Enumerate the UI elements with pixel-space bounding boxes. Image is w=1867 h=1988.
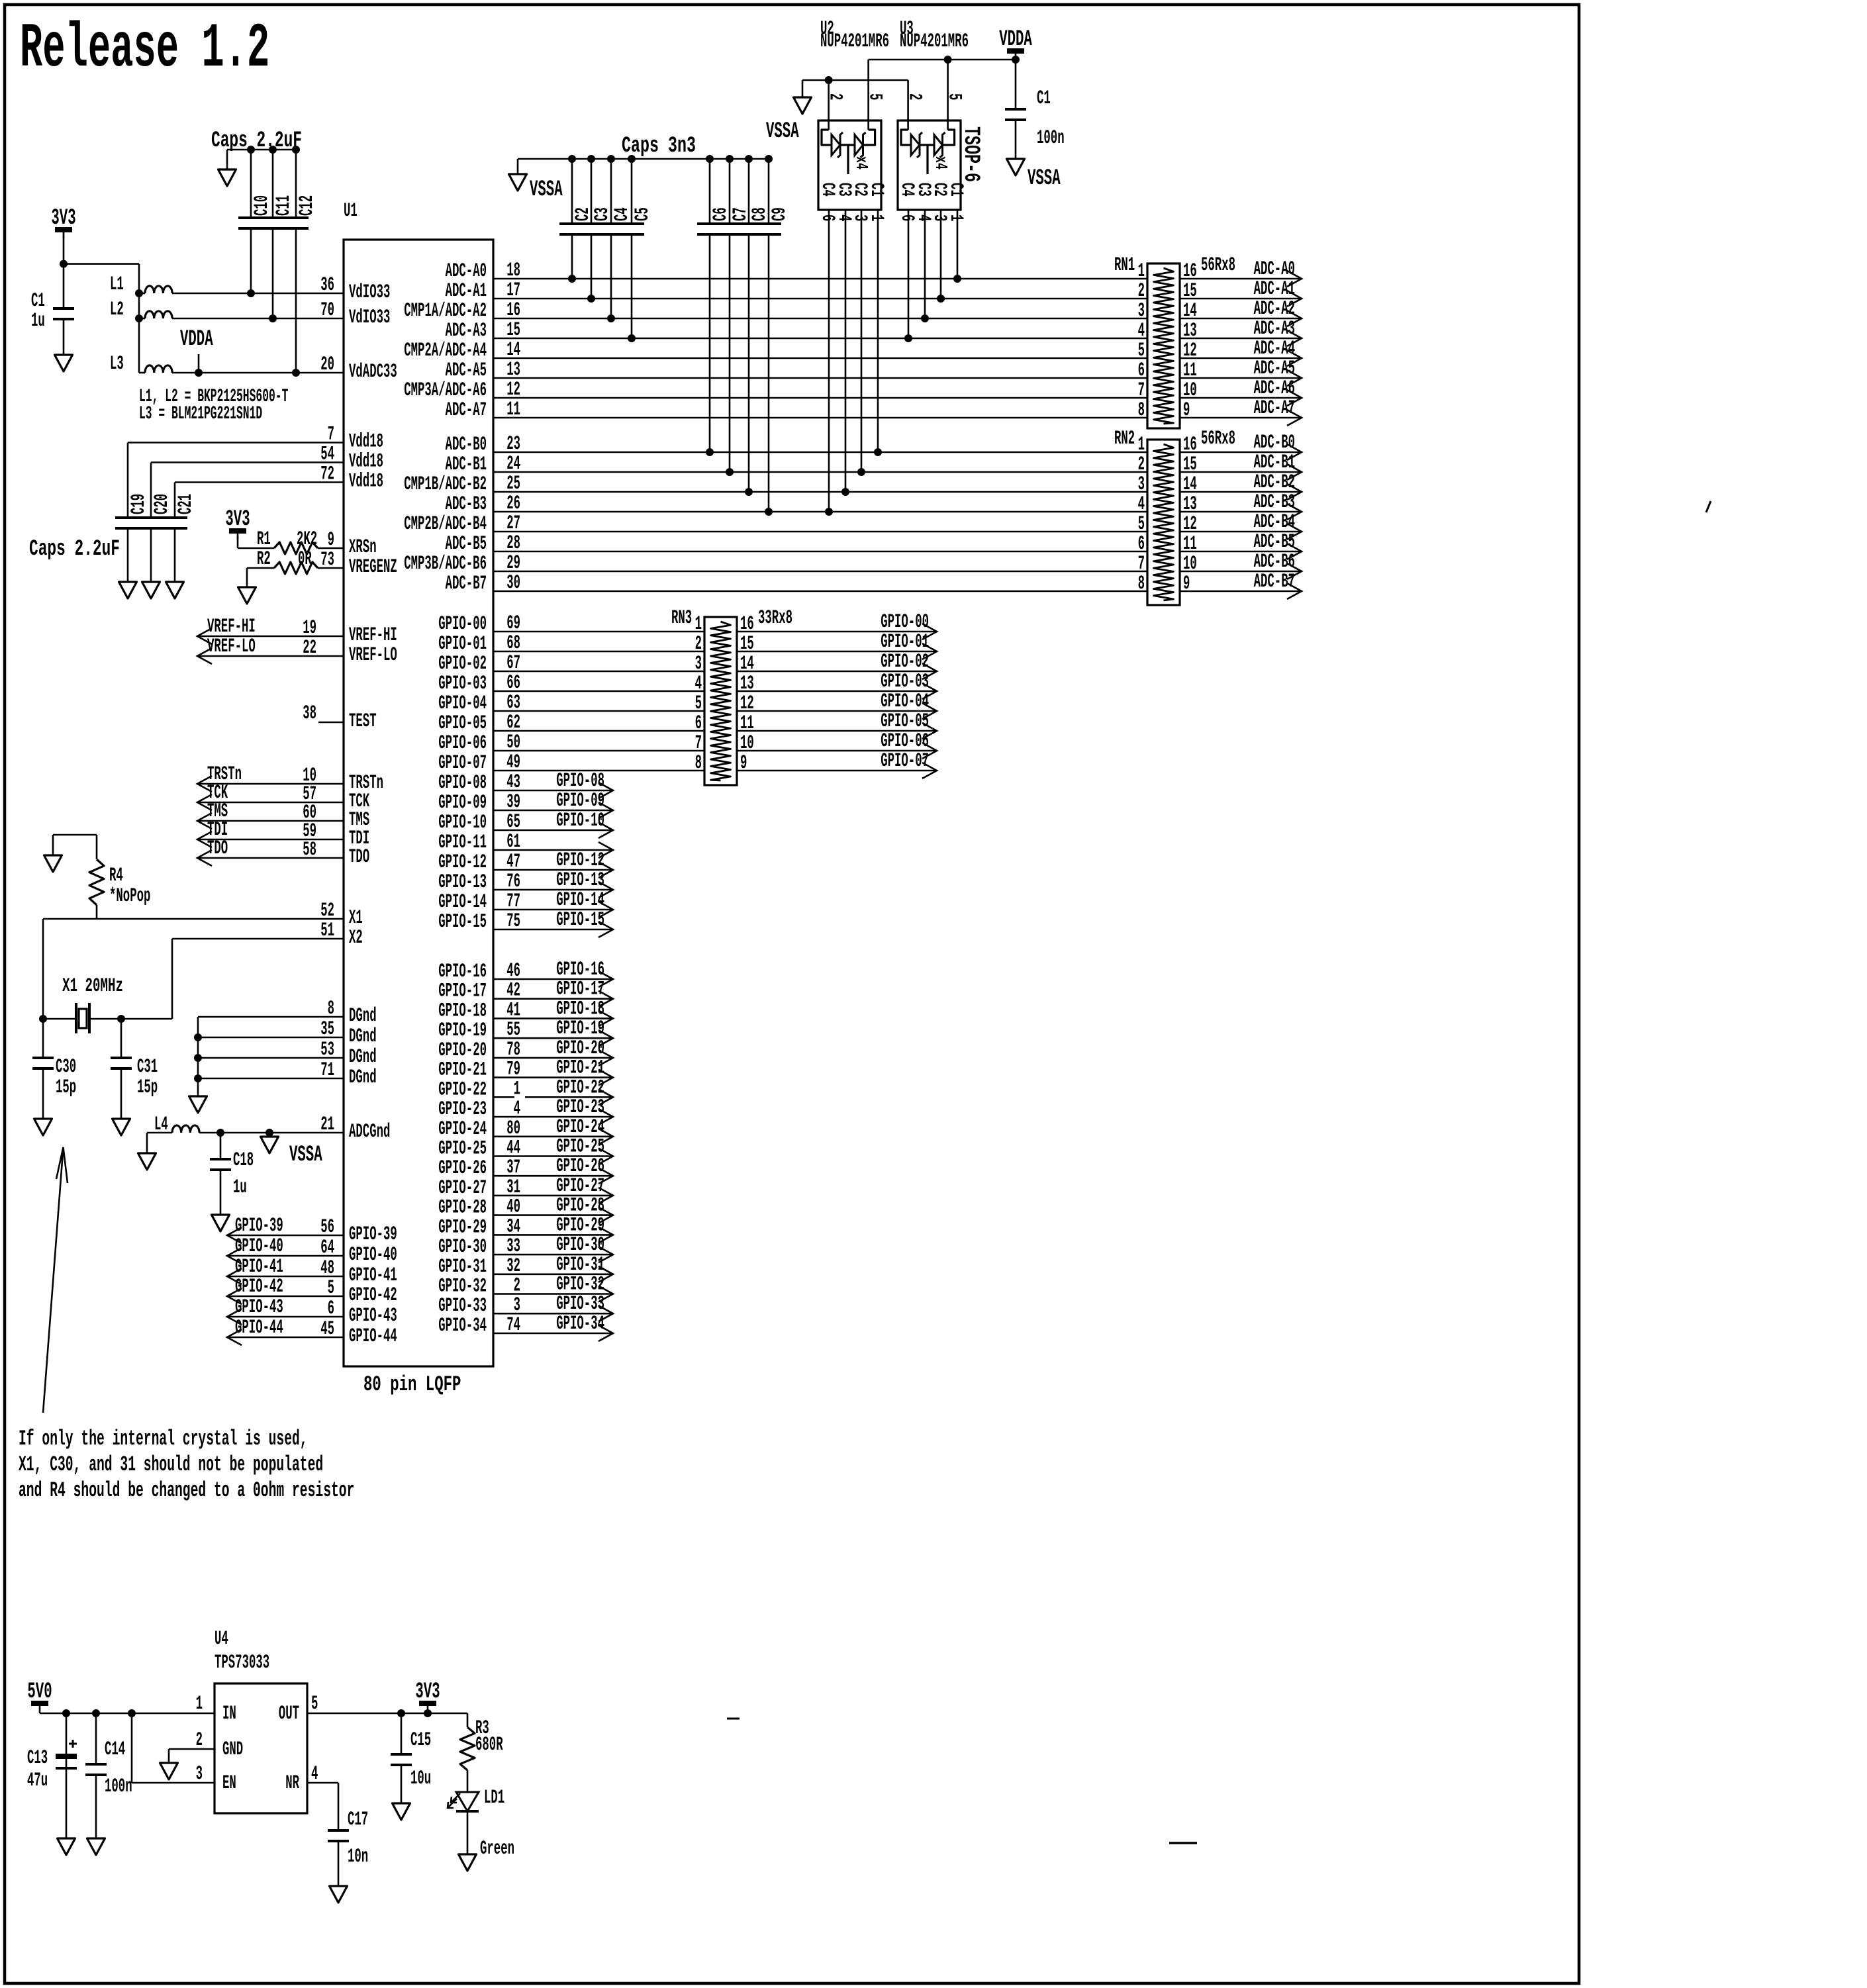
svg-text:VREGENZ: VREGENZ bbox=[349, 556, 397, 579]
wire GPIO-09 arrow bbox=[493, 810, 613, 812]
wire GPIO-05 to RN3 bbox=[493, 730, 704, 732]
wire GPIO-32 arrow bbox=[493, 1293, 613, 1295]
svg-text:7: 7 bbox=[695, 732, 702, 755]
svg-text:48: 48 bbox=[320, 1257, 334, 1280]
svg-text:15p: 15p bbox=[137, 1076, 158, 1099]
label C4 U3 bbox=[896, 183, 917, 197]
svg-text:Vdd18: Vdd18 bbox=[349, 451, 383, 473]
svg-text:39: 39 bbox=[506, 791, 520, 814]
net label TDI bbox=[207, 819, 228, 841]
net label GPIO-08 bbox=[556, 770, 604, 792]
wire GPIO-07 output arrow bbox=[737, 770, 937, 772]
svg-text:43: 43 bbox=[506, 771, 520, 794]
wire X2 drop bbox=[171, 939, 173, 1019]
svg-text:100n: 100n bbox=[105, 1775, 132, 1798]
wire ADC-A6 output arrow bbox=[1180, 397, 1302, 399]
wire R4 top hook bbox=[53, 834, 97, 836]
pin 4 RN3 bbox=[695, 673, 702, 695]
svg-text:R4: R4 bbox=[109, 865, 123, 887]
svg-text:GPIO-08: GPIO-08 bbox=[438, 772, 487, 794]
ground C30 bbox=[34, 1119, 52, 1135]
pin 7 RN3 bbox=[695, 732, 702, 755]
capacitor C4 3n3 bbox=[598, 224, 624, 234]
stray mark dash 1 bbox=[727, 1718, 740, 1720]
pin 63 GPIO-04 bbox=[506, 692, 520, 714]
note crystal usage line 1 bbox=[19, 1427, 308, 1451]
resistor R4 NoPop bbox=[96, 835, 98, 859]
svg-text:1: 1 bbox=[1138, 434, 1145, 456]
svg-text:56: 56 bbox=[320, 1216, 334, 1239]
wire U2 pin 2 riser bbox=[828, 80, 830, 130]
pin 16 CMP1A/ADC-A2 bbox=[506, 299, 520, 322]
ground VSSA ADCGnd bbox=[261, 1137, 279, 1153]
svg-text:GPIO-14: GPIO-14 bbox=[556, 889, 604, 912]
svg-text:GPIO-39: GPIO-39 bbox=[235, 1215, 283, 1237]
label C1 U2 bbox=[866, 183, 886, 197]
label C18 bbox=[233, 1149, 254, 1172]
wire GPIO-02 to RN3 bbox=[493, 671, 704, 673]
label 0R bbox=[298, 548, 312, 571]
wire C12 bottom bbox=[295, 228, 297, 373]
svg-text:5: 5 bbox=[1138, 513, 1145, 536]
ground C14 bbox=[87, 1838, 105, 1855]
svg-text:2: 2 bbox=[1138, 280, 1145, 303]
label 100n bbox=[1037, 127, 1065, 150]
ground L4 bbox=[138, 1153, 156, 1170]
wire VDDA to C1 bbox=[1015, 60, 1017, 109]
svg-text:5: 5 bbox=[311, 1693, 318, 1715]
junction C12 bbox=[292, 369, 300, 377]
ground LD1 bbox=[459, 1854, 477, 1871]
wire ADC-A3 bus bbox=[493, 338, 1147, 340]
capacitor C31 bbox=[111, 1058, 132, 1068]
wire EN strap bbox=[131, 1713, 133, 1783]
svg-text:Vdd18: Vdd18 bbox=[349, 471, 383, 493]
svg-text:DGnd: DGnd bbox=[349, 1046, 377, 1068]
svg-text:2: 2 bbox=[825, 93, 845, 100]
capacitor C1 100n bbox=[1005, 109, 1026, 120]
svg-text:ADC-B4: ADC-B4 bbox=[1254, 511, 1295, 534]
svg-text:6: 6 bbox=[1138, 359, 1145, 382]
svg-text:ADC-A5: ADC-A5 bbox=[1254, 357, 1295, 380]
note inductor part numbers bbox=[139, 387, 288, 407]
svg-text:65: 65 bbox=[506, 811, 520, 833]
pin 28 ADC-B5 bbox=[506, 532, 520, 555]
wire C11 bottom bbox=[272, 228, 274, 318]
inductor L1 bbox=[139, 293, 145, 295]
capacitor C15 bbox=[391, 1754, 412, 1765]
wire GPIO-28 arrow bbox=[493, 1214, 613, 1216]
label C1 100n bbox=[1037, 87, 1051, 110]
svg-text:DGnd: DGnd bbox=[349, 1005, 377, 1027]
label C3 U2 bbox=[834, 183, 854, 197]
label 33Rx8 bbox=[758, 607, 792, 630]
net label GPIO-26 bbox=[556, 1155, 604, 1178]
wire 5V0 to U4 IN bbox=[39, 1712, 41, 1713]
wire C1 to ground bbox=[63, 319, 65, 355]
wire ADC-B1 bus bbox=[493, 471, 1147, 473]
wire GPIO-44 arrow bbox=[227, 1337, 344, 1339]
svg-text:GPIO-01: GPIO-01 bbox=[881, 631, 929, 653]
wire GPIO-26 arrow bbox=[493, 1175, 613, 1177]
svg-text:VSSA: VSSA bbox=[289, 1143, 322, 1168]
svg-text:GPIO-44: GPIO-44 bbox=[235, 1317, 283, 1339]
wire GPIO-17 arrow bbox=[493, 998, 613, 1000]
ground C13 bbox=[58, 1838, 75, 1855]
wire 3V3 to VDDA bus bbox=[63, 235, 65, 308]
label C5 bbox=[632, 207, 654, 221]
wire GPIO-00 to RN3 bbox=[493, 631, 704, 633]
svg-text:C12: C12 bbox=[296, 195, 318, 216]
wire VREF-LO arrow bbox=[197, 655, 344, 657]
svg-text:71: 71 bbox=[320, 1059, 334, 1082]
svg-text:RN3: RN3 bbox=[671, 607, 692, 630]
ground cap bank C10-C12 bbox=[218, 169, 236, 186]
wire caps 3n3 rail bbox=[518, 158, 769, 160]
wire ADC-B6 bus bbox=[493, 571, 1147, 573]
wire U3 pin 5 riser bbox=[947, 60, 949, 130]
label Caps 2.2uF (left) bbox=[29, 537, 120, 562]
svg-text:C13: C13 bbox=[27, 1747, 48, 1770]
pin 41 GPIO-18 bbox=[506, 999, 520, 1021]
svg-text:ADC-A6: ADC-A6 bbox=[1254, 377, 1295, 400]
junction EN bbox=[128, 1709, 136, 1717]
wire GPIO-30 arrow bbox=[493, 1254, 613, 1256]
svg-text:8: 8 bbox=[1138, 573, 1145, 595]
net label ADC-B4 bbox=[1254, 511, 1295, 534]
pin 42 GPIO-17 bbox=[506, 980, 520, 1002]
net label GPIO-16 bbox=[556, 959, 604, 981]
svg-text:ADC-A2: ADC-A2 bbox=[1254, 298, 1295, 320]
pin 22 VREF-LO bbox=[303, 637, 316, 659]
pin 27 CMP2B/ADC-B4 bbox=[506, 512, 520, 535]
wire Vdd18 pin 7 bbox=[128, 442, 344, 444]
label R3 bbox=[475, 1717, 489, 1740]
net label GPIO-31 bbox=[556, 1254, 604, 1276]
svg-text:C1: C1 bbox=[31, 290, 45, 312]
pin 69 GPIO-00 bbox=[506, 612, 520, 635]
pin 55 GPIO-19 bbox=[506, 1019, 520, 1041]
label C30 bbox=[56, 1056, 76, 1078]
svg-text:OUT: OUT bbox=[279, 1703, 299, 1725]
svg-text:and R4 should be changed to a: and R4 should be changed to a 0ohm resis… bbox=[19, 1478, 354, 1503]
junction U2 pin 3 bbox=[857, 468, 865, 476]
label C20 bbox=[151, 494, 173, 514]
pin 39 GPIO-09 bbox=[506, 791, 520, 814]
pin 10 RN1 bbox=[1183, 379, 1197, 402]
svg-text:VdIO33: VdIO33 bbox=[349, 281, 390, 304]
svg-text:ADC-B7: ADC-B7 bbox=[446, 573, 487, 595]
pin 13 RN3 bbox=[740, 673, 754, 695]
svg-text:24: 24 bbox=[506, 453, 520, 475]
junction L2 bus bbox=[135, 314, 143, 322]
svg-text:26: 26 bbox=[506, 493, 520, 515]
svg-text:ADC-B3: ADC-B3 bbox=[1254, 491, 1295, 514]
ground R4 bbox=[44, 855, 62, 872]
wire R1 to pin 9 XRSn bbox=[318, 547, 344, 549]
wire C11 top bbox=[272, 150, 274, 218]
pin 14 RN2 bbox=[1183, 473, 1197, 496]
svg-text:C15: C15 bbox=[410, 1729, 431, 1752]
net VSSA at ADCGnd bbox=[269, 1133, 271, 1137]
ground C19 bbox=[119, 582, 137, 598]
pin 4 RN1 bbox=[1138, 320, 1145, 342]
svg-text:17: 17 bbox=[506, 279, 520, 302]
pin 6 GPIO-43 bbox=[328, 1298, 334, 1320]
ground U4 bbox=[160, 1763, 178, 1779]
wire ADC-A4 bus bbox=[493, 357, 1147, 359]
svg-text:VSSA: VSSA bbox=[766, 119, 799, 144]
svg-text:ADC-B7: ADC-B7 bbox=[1254, 571, 1295, 593]
net label GPIO-07 bbox=[881, 750, 929, 773]
pin 5 RN3 bbox=[695, 692, 702, 715]
svg-text:1: 1 bbox=[196, 1693, 203, 1715]
svg-text:23: 23 bbox=[506, 433, 520, 455]
junction C14 bbox=[92, 1709, 100, 1717]
wire U2 pin 5 riser bbox=[867, 60, 869, 130]
svg-text:GPIO-41: GPIO-41 bbox=[235, 1256, 283, 1278]
wire ADC-A6 bus bbox=[493, 397, 1147, 399]
net label GPIO-03 bbox=[881, 671, 929, 693]
svg-text:GPIO-42: GPIO-42 bbox=[235, 1276, 283, 1298]
label L1 bbox=[110, 273, 124, 296]
svg-text:X1 20MHz: X1 20MHz bbox=[62, 975, 123, 998]
svg-text:GPIO-01: GPIO-01 bbox=[438, 633, 487, 655]
svg-text:IN: IN bbox=[222, 1703, 236, 1725]
svg-text:ADC-A0: ADC-A0 bbox=[1254, 258, 1295, 281]
svg-text:R2: R2 bbox=[257, 548, 271, 571]
svg-text:GPIO-39: GPIO-39 bbox=[349, 1223, 397, 1246]
svg-text:R1: R1 bbox=[257, 528, 271, 551]
svg-text:DGnd: DGnd bbox=[349, 1025, 377, 1048]
capacitor C31 15p bbox=[120, 1019, 122, 1058]
wire GPIO-19 arrow bbox=[493, 1037, 613, 1039]
wire NR to C17 bbox=[307, 1782, 338, 1784]
label U3 bbox=[900, 18, 914, 40]
pin 15 RN2 bbox=[1183, 453, 1197, 476]
wire DGnd pin 35 bbox=[198, 1037, 344, 1039]
svg-text:11: 11 bbox=[506, 399, 520, 421]
svg-text:69: 69 bbox=[506, 612, 520, 635]
svg-text:VREF-LO: VREF-LO bbox=[349, 644, 397, 667]
svg-text:Caps 2.2uF: Caps 2.2uF bbox=[29, 537, 120, 562]
wire VSSA rail (U2/U3 pin2) bbox=[802, 79, 908, 81]
pin 6 U3 bbox=[896, 214, 917, 221]
wire C4 lower bbox=[610, 234, 612, 318]
wire ADC-A0 bus bbox=[493, 278, 1147, 280]
pin 54 Vdd18 bbox=[320, 444, 334, 466]
net label GPIO-04 bbox=[881, 690, 929, 713]
label C11 bbox=[273, 195, 295, 216]
wire C3 lower bbox=[591, 234, 593, 299]
net label ADC-B6 bbox=[1254, 551, 1295, 573]
pin 47 GPIO-12 bbox=[506, 851, 520, 873]
label 10u bbox=[410, 1768, 431, 1790]
net label GPIO-44 bbox=[235, 1317, 283, 1339]
diode U2 D1 bbox=[832, 132, 843, 158]
pin 62 GPIO-05 bbox=[506, 712, 520, 734]
pin 64 GPIO-40 bbox=[320, 1237, 334, 1259]
net label ADC-A0 bbox=[1254, 258, 1295, 281]
net label TCK bbox=[207, 782, 228, 804]
capacitor C5 3n3 bbox=[619, 224, 644, 234]
label C14 bbox=[105, 1738, 125, 1761]
svg-text:CMP3A/ADC-A6: CMP3A/ADC-A6 bbox=[404, 379, 487, 402]
svg-text:GPIO-03: GPIO-03 bbox=[438, 673, 487, 695]
svg-text:VDDA: VDDA bbox=[180, 327, 213, 352]
wire ADC-B5 output arrow bbox=[1180, 551, 1302, 553]
label U1 bbox=[344, 200, 358, 222]
wire TCK arrow bbox=[197, 802, 344, 804]
svg-text:x4: x4 bbox=[931, 156, 951, 169]
wire ADC-A3 output arrow bbox=[1180, 338, 1302, 340]
wire ADC-A1 output arrow bbox=[1180, 298, 1302, 300]
svg-text:2: 2 bbox=[1138, 453, 1145, 476]
label C1 bbox=[31, 290, 45, 312]
label RN2 bbox=[1114, 428, 1135, 450]
junction C15 bbox=[397, 1709, 405, 1717]
svg-text:5: 5 bbox=[695, 692, 702, 715]
wire LED to ground bbox=[467, 1811, 469, 1854]
pin 72 Vdd18 bbox=[320, 463, 334, 486]
svg-text:ADC-A7: ADC-A7 bbox=[1254, 397, 1295, 420]
pin 19 VREF-HI bbox=[303, 617, 316, 639]
junction U3 pin 1 bbox=[953, 275, 961, 283]
svg-text:GPIO-04: GPIO-04 bbox=[438, 692, 487, 715]
svg-text:35: 35 bbox=[320, 1018, 334, 1041]
net label ADC-B2 bbox=[1254, 471, 1295, 494]
wire GPIO-13 arrow bbox=[493, 889, 613, 891]
svg-text:GPIO-07: GPIO-07 bbox=[881, 750, 929, 773]
svg-text:1: 1 bbox=[866, 214, 886, 221]
svg-text:GPIO-10: GPIO-10 bbox=[556, 810, 604, 832]
wire ADC-B2 output arrow bbox=[1180, 491, 1302, 493]
wire cap bank rail bbox=[227, 149, 296, 151]
label x4 U3 bbox=[931, 156, 951, 169]
junction crystal left bbox=[39, 1015, 47, 1023]
pin 12 RN1 bbox=[1183, 340, 1197, 362]
wire GPIO-10 arrow bbox=[493, 829, 613, 831]
stray mark apostrophe bbox=[1706, 501, 1711, 512]
svg-text:RN1: RN1 bbox=[1114, 254, 1135, 277]
label C21 bbox=[175, 494, 197, 514]
net label GPIO-18 bbox=[556, 998, 604, 1020]
svg-text:ADC-A1: ADC-A1 bbox=[446, 280, 487, 303]
pin 8 RN2 bbox=[1138, 573, 1145, 595]
wire ADC-B5 bus bbox=[493, 551, 1147, 553]
svg-text:GPIO-13: GPIO-13 bbox=[438, 871, 487, 894]
pin 2 RN2 bbox=[1138, 453, 1145, 476]
wire L3 to pin 20 bbox=[172, 372, 344, 374]
pin 58 TDO bbox=[303, 839, 316, 861]
ground C15 bbox=[393, 1803, 410, 1820]
svg-text:ADC-B5: ADC-B5 bbox=[446, 533, 487, 555]
junction C10 bbox=[247, 289, 255, 297]
svg-text:VREF-LO: VREF-LO bbox=[207, 636, 256, 658]
label x4 U2 bbox=[851, 156, 871, 169]
svg-text:1u: 1u bbox=[233, 1176, 247, 1199]
ground C18 bbox=[212, 1215, 230, 1231]
svg-text:ADC-A7: ADC-A7 bbox=[446, 399, 487, 422]
LED LD1 bbox=[448, 1792, 479, 1811]
pin 52 X1 bbox=[320, 900, 334, 922]
ground C17 bbox=[330, 1886, 348, 1903]
junction VSSA bbox=[265, 1129, 273, 1137]
svg-text:80 pin LQFP: 80 pin LQFP bbox=[363, 1372, 461, 1397]
pin 8 RN3 bbox=[695, 752, 702, 775]
wire C9 upper bbox=[768, 159, 770, 224]
pin 3 RN3 bbox=[695, 653, 702, 675]
wire GPIO-31 arrow bbox=[493, 1274, 613, 1276]
label U2 bbox=[820, 18, 834, 40]
wire GPIO-07 to RN3 bbox=[493, 770, 704, 772]
svg-text:X2: X2 bbox=[349, 927, 363, 949]
wire GPIO-27 arrow bbox=[493, 1195, 613, 1197]
pin 20 VdADC33 bbox=[320, 354, 334, 376]
pin 67 GPIO-02 bbox=[506, 652, 520, 675]
svg-text:GPIO-43: GPIO-43 bbox=[235, 1296, 283, 1319]
resistor network RN1 56Rx8 body bbox=[1147, 263, 1180, 428]
svg-text:77: 77 bbox=[506, 890, 520, 913]
svg-text:U1: U1 bbox=[344, 200, 358, 222]
svg-text:6: 6 bbox=[1138, 533, 1145, 555]
svg-text:62: 62 bbox=[506, 712, 520, 734]
svg-text:TDO: TDO bbox=[207, 837, 228, 860]
pin 78 GPIO-20 bbox=[506, 1039, 520, 1061]
wire GPIO-21 arrow bbox=[493, 1076, 613, 1078]
svg-text:GPIO-05: GPIO-05 bbox=[881, 710, 929, 733]
wire Vdd18 pin 72 bbox=[175, 481, 344, 483]
pin 12 RN3 bbox=[740, 692, 754, 715]
svg-text:L3 = BLM21PG221SN1D: L3 = BLM21PG221SN1D bbox=[139, 404, 262, 424]
pin 8 RN1 bbox=[1138, 399, 1145, 422]
pin 3 U2 bbox=[849, 214, 870, 221]
label RN1 bbox=[1114, 254, 1135, 277]
pin 31 GPIO-27 bbox=[506, 1176, 520, 1199]
svg-text:15: 15 bbox=[506, 319, 520, 342]
svg-text:5: 5 bbox=[944, 93, 965, 100]
pin 13 RN2 bbox=[1183, 493, 1197, 516]
wire C4 upper bbox=[610, 159, 612, 224]
pin 13 ADC-A5 bbox=[506, 359, 520, 381]
svg-text:29: 29 bbox=[506, 552, 520, 575]
label C19 bbox=[128, 494, 150, 514]
pin 8 DGnd bbox=[328, 998, 334, 1020]
net label TMS bbox=[207, 800, 228, 823]
svg-text:13: 13 bbox=[506, 359, 520, 381]
junction rail C7 bbox=[726, 155, 734, 163]
svg-text:GPIO-06: GPIO-06 bbox=[438, 732, 487, 755]
wire ADC-B4 bus bbox=[493, 531, 1147, 533]
pin 53 DGnd bbox=[320, 1039, 334, 1061]
pin 32 GPIO-31 bbox=[506, 1255, 520, 1278]
label 1u bbox=[233, 1176, 247, 1199]
svg-text:C11: C11 bbox=[273, 195, 295, 216]
wire C8 lower bbox=[748, 234, 750, 492]
label TSOP-6 bbox=[958, 126, 983, 182]
svg-text:61: 61 bbox=[506, 831, 520, 853]
svg-text:VdADC33: VdADC33 bbox=[349, 361, 397, 383]
wire C5 upper bbox=[631, 159, 633, 224]
pin 21 ADCGnd bbox=[320, 1113, 334, 1136]
pin 44 GPIO-25 bbox=[506, 1137, 520, 1160]
svg-text:74: 74 bbox=[506, 1314, 520, 1337]
svg-text:CMP2A/ADC-A4: CMP2A/ADC-A4 bbox=[404, 340, 487, 362]
label C4 bbox=[611, 207, 634, 221]
svg-text:GND: GND bbox=[222, 1738, 243, 1761]
junction U2 pin2 bbox=[825, 76, 833, 84]
svg-text:0R: 0R bbox=[298, 548, 312, 571]
